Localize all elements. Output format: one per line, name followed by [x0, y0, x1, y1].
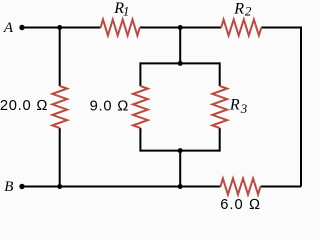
svg-text:20.0 Ω: 20.0 Ω	[0, 98, 48, 114]
svg-text:B: B	[4, 179, 13, 195]
svg-text:3: 3	[240, 101, 248, 116]
svg-text:6.0 Ω: 6.0 Ω	[220, 197, 261, 213]
svg-text:9.0 Ω: 9.0 Ω	[90, 98, 130, 114]
svg-text:R: R	[233, 0, 244, 17]
svg-text:1: 1	[123, 4, 129, 19]
svg-text:2: 2	[245, 4, 252, 19]
svg-text:R: R	[229, 96, 240, 113]
svg-text:A: A	[3, 20, 14, 36]
